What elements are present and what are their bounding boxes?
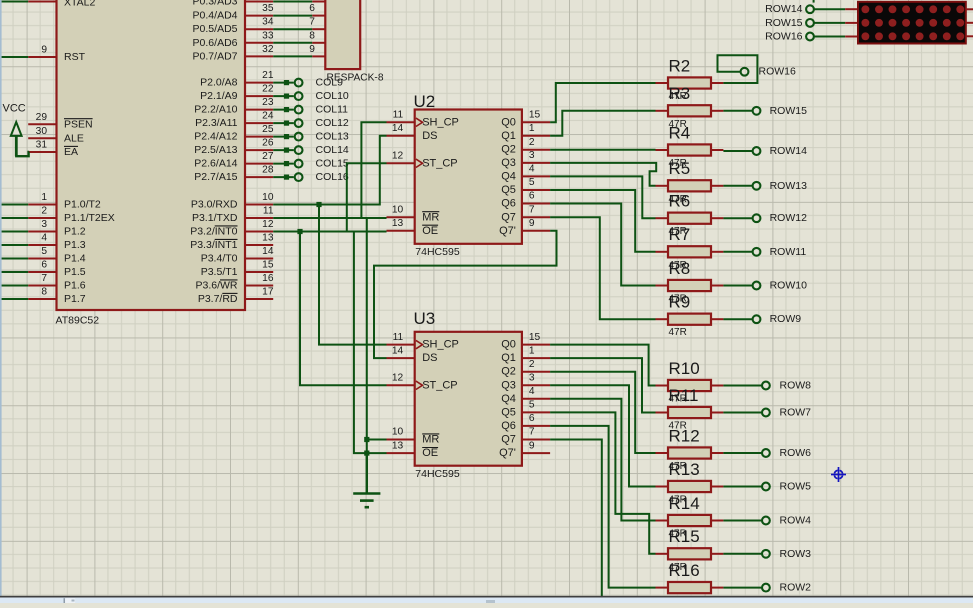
svg-text:EA: EA (64, 146, 78, 158)
svg-text:ROW9: ROW9 (770, 313, 802, 325)
svg-text:XTAL2: XTAL2 (64, 0, 95, 9)
terminal ROW15 matrix feed (765, 17, 858, 29)
terminal COL9 (273, 77, 343, 89)
svg-text:R2: R2 (669, 56, 691, 75)
svg-text:1: 1 (529, 123, 535, 134)
wire VCC to EA pin (16, 152, 29, 156)
svg-text:Q6: Q6 (501, 198, 516, 210)
terminal COL12 (273, 117, 349, 129)
wire U2.Q4 to R6 (550, 176, 655, 218)
svg-text:COL16: COL16 (316, 171, 349, 183)
svg-text:16: 16 (262, 273, 274, 284)
wire U2.Q3 to R5 with jog (550, 163, 656, 186)
RESPACK-8 pin numbers 6 7 8 9 (309, 3, 315, 55)
left window edge (0, 0, 2, 596)
svg-text:13: 13 (392, 218, 404, 229)
svg-text:31: 31 (36, 140, 48, 151)
U1 right pin stubs with pin numbers 35-32 21-28 10-17 (245, 2, 274, 300)
resistor R10 47R (656, 359, 724, 405)
shift register U2 74HC595 (414, 92, 522, 258)
wire ROW5 (723, 486, 761, 488)
wire U2.SH_CP down to P3.1 net (361, 122, 386, 218)
resistor R6 47R (656, 192, 724, 238)
svg-text:P0.3/AD3: P0.3/AD3 (193, 0, 238, 8)
bottom scrollbar (0, 596, 973, 603)
svg-text:Q0: Q0 (501, 339, 516, 351)
svg-text:P1.4: P1.4 (64, 253, 86, 265)
svg-text:ROW13: ROW13 (770, 180, 808, 192)
svg-text:Q7: Q7 (501, 434, 516, 446)
svg-text:R4: R4 (669, 123, 691, 142)
wire U2.Q2 to R4 (550, 149, 655, 151)
wire U3.Q6 to R16 (550, 426, 655, 588)
ground (353, 453, 380, 507)
svg-text:ROW15: ROW15 (765, 17, 803, 29)
svg-text:VCC: VCC (3, 103, 26, 115)
svg-text:74HC595: 74HC595 (415, 246, 460, 258)
svg-text:COL15: COL15 (316, 158, 349, 170)
svg-text:1: 1 (529, 345, 535, 356)
svg-text:74HC595: 74HC595 (415, 468, 460, 480)
wire P3.2 net down to U3.OE (354, 232, 387, 454)
svg-text:P3.6/WR: P3.6/WR (195, 280, 237, 292)
svg-text:3: 3 (41, 219, 47, 230)
wire U3.Q3 to R13 (550, 385, 655, 486)
svg-text:R5: R5 (669, 159, 691, 178)
svg-text:AT89C52: AT89C52 (56, 315, 100, 327)
resistor R12 47R (656, 426, 724, 472)
wire U3.Q4 to R14 (550, 399, 655, 521)
svg-text:ROW14: ROW14 (770, 145, 808, 157)
svg-text:9: 9 (529, 440, 535, 451)
wire U2.Q0 to R2 (550, 83, 655, 122)
svg-text:P1.5: P1.5 (64, 266, 86, 278)
wire U2.Q5 to R7 (550, 190, 655, 252)
wire U2.Q7' cascade to U3.DS (374, 231, 557, 358)
svg-text:25: 25 (262, 124, 274, 135)
terminal ROW15 (753, 105, 808, 117)
svg-text:ROW4: ROW4 (780, 515, 812, 527)
terminal ROW16 (741, 66, 796, 78)
svg-text:R9: R9 (669, 293, 691, 312)
wire U2.Q7 to R9 (550, 217, 655, 319)
terminal COL15 (273, 158, 349, 170)
svg-text:32: 32 (262, 44, 274, 55)
svg-text:COL14: COL14 (316, 144, 349, 156)
RESPACK-8 left pin stubs (312, 2, 325, 57)
resistor R14 47R (656, 494, 724, 540)
terminal ROW13 (753, 180, 808, 192)
svg-text:9: 9 (529, 218, 535, 229)
svg-text:26: 26 (262, 138, 274, 149)
wire ROW11 (723, 251, 752, 253)
terminal COL14 (273, 144, 349, 156)
svg-text:29: 29 (36, 112, 48, 123)
resistor R4 47R (656, 123, 724, 169)
wire U3.Q1 to R11 (550, 358, 655, 412)
svg-text:14: 14 (392, 123, 404, 134)
svg-text:R3: R3 (669, 84, 691, 103)
svg-text:11: 11 (393, 110, 404, 121)
svg-text:10: 10 (392, 427, 404, 438)
svg-text:P1.3: P1.3 (64, 239, 86, 251)
power VCC arrow (3, 103, 26, 157)
svg-text:P3.3/INT1: P3.3/INT1 (190, 239, 237, 251)
svg-text:11: 11 (263, 206, 274, 217)
wire ROW15 (723, 110, 752, 112)
svg-text:COL9: COL9 (316, 77, 344, 89)
wire U3.Q5 to R15 with jog (550, 412, 655, 553)
svg-text:21: 21 (262, 70, 274, 81)
terminal ROW11 (753, 246, 807, 258)
svg-text:33: 33 (262, 30, 274, 41)
svg-text:12: 12 (262, 219, 274, 230)
resistor R13 47R (656, 460, 724, 506)
svg-text:8: 8 (41, 287, 47, 298)
svg-text:P3.4/T0: P3.4/T0 (201, 253, 238, 265)
U2 pin stubs and pin numbers (387, 110, 551, 231)
svg-text:SH_CP: SH_CP (422, 339, 459, 351)
svg-text:12: 12 (392, 151, 404, 162)
svg-text:R15: R15 (669, 527, 700, 546)
svg-text:10: 10 (262, 192, 274, 203)
svg-text:R8: R8 (669, 259, 691, 278)
svg-text:ROW12: ROW12 (770, 212, 808, 224)
svg-text:2: 2 (529, 137, 535, 148)
svg-text:Q1: Q1 (501, 130, 516, 142)
svg-text:Q2: Q2 (501, 366, 516, 378)
svg-text:6: 6 (309, 3, 315, 14)
resistor R11 47R (656, 386, 724, 432)
svg-text:Q4: Q4 (501, 393, 516, 405)
terminal ROW5 (762, 481, 811, 493)
svg-text:ROW8: ROW8 (780, 380, 812, 392)
svg-text:15: 15 (262, 260, 274, 271)
wire ROW4 (723, 520, 761, 522)
svg-text:P0.4/AD4: P0.4/AD4 (193, 10, 238, 22)
svg-text:P2.6/A14: P2.6/A14 (194, 158, 237, 170)
wires P0.3-P0.7 to RESPACK-8 (273, 2, 312, 57)
svg-text:P3.5/T1: P3.5/T1 (201, 266, 238, 278)
wire R2 to ROW16 terminal detour (718, 55, 758, 83)
svg-text:P2.7/A15: P2.7/A15 (194, 171, 237, 183)
svg-text:4: 4 (41, 233, 47, 244)
wire U3.Q2 to R12 (550, 372, 655, 453)
svg-text:ROW3: ROW3 (780, 548, 812, 560)
svg-text:ST_CP: ST_CP (422, 157, 457, 169)
svg-text:8: 8 (309, 30, 315, 41)
svg-text:ROW7: ROW7 (780, 407, 812, 419)
resistor R2 47R (656, 56, 724, 102)
svg-text:22: 22 (262, 84, 274, 95)
svg-text:COL13: COL13 (316, 131, 349, 143)
svg-text:Q6: Q6 (501, 420, 516, 432)
svg-text:RST: RST (64, 51, 86, 63)
wire P3.2 junction down to U3.ST_CP (300, 232, 387, 386)
wires from left edge to U1 pins XTAL2 RST P1.0-P1.7 (0, 2, 28, 300)
svg-text:ROW5: ROW5 (780, 481, 812, 493)
svg-text:P0.6/AD6: P0.6/AD6 (193, 37, 238, 49)
svg-text:R12: R12 (669, 426, 700, 445)
svg-text:DS: DS (422, 130, 437, 142)
svg-text:9: 9 (41, 45, 47, 56)
svg-text:24: 24 (262, 111, 274, 122)
wire P3.0 to U2.DS and U3.SH_CP with junction (273, 136, 386, 345)
dot matrix display LED16x16 (858, 2, 973, 44)
svg-text:ROW2: ROW2 (780, 582, 812, 594)
svg-text:P2.1/A9: P2.1/A9 (200, 90, 238, 102)
svg-text:P1.2: P1.2 (64, 226, 86, 238)
svg-text:Q2: Q2 (501, 144, 516, 156)
wire ROW3 (723, 553, 761, 555)
U1 left pin stubs with pin numbers 9 29 30 31 1-8 (28, 2, 56, 300)
svg-text:P3.2/INT0: P3.2/INT0 (190, 226, 237, 238)
svg-text:R16: R16 (669, 561, 700, 580)
svg-text:P0.7/AD7: P0.7/AD7 (193, 50, 238, 62)
svg-text:7: 7 (41, 273, 47, 284)
svg-text:MR: MR (422, 434, 439, 446)
svg-text:14: 14 (392, 345, 404, 356)
svg-text:2: 2 (529, 359, 535, 370)
svg-text:COL11: COL11 (316, 104, 349, 116)
resistor pack RP1 RESPACK-8 (325, 0, 384, 83)
svg-text:ST_CP: ST_CP (422, 379, 457, 391)
terminal ROW6 (762, 447, 811, 459)
svg-text:Q7': Q7' (499, 225, 516, 237)
svg-text:P1.7: P1.7 (64, 293, 86, 305)
svg-text:5: 5 (529, 400, 535, 411)
resistor R8 47R (656, 259, 724, 305)
wire ROW9 (723, 318, 752, 320)
wire ROW8 (723, 385, 761, 387)
svg-text:5: 5 (529, 177, 535, 188)
svg-text:13: 13 (392, 440, 404, 451)
cursor crosshair (831, 467, 846, 482)
svg-text:SH_CP: SH_CP (422, 116, 459, 128)
svg-text:ROW11: ROW11 (770, 246, 807, 258)
terminal ROW8 (762, 380, 811, 392)
svg-text:27: 27 (262, 151, 274, 162)
svg-text:Q7': Q7' (499, 447, 516, 459)
terminal ROW3 (762, 548, 811, 560)
svg-text:30: 30 (36, 126, 48, 137)
svg-text:5: 5 (41, 246, 47, 257)
resistor R15 47R (656, 527, 724, 573)
svg-text:P1.6: P1.6 (64, 280, 86, 292)
svg-text:R6: R6 (669, 192, 691, 211)
wire ROW12 (723, 217, 752, 219)
svg-text:47R: 47R (669, 327, 687, 338)
svg-text:Q0: Q0 (501, 116, 516, 128)
svg-text:ROW16: ROW16 (765, 31, 803, 43)
svg-text:ALE: ALE (64, 132, 84, 144)
svg-text:ROW14: ROW14 (765, 3, 803, 15)
svg-text:P2.0/A8: P2.0/A8 (200, 77, 238, 89)
wire U2.ST_CP down to P3.2 net (347, 163, 387, 231)
wire P3.1 to U2.MR (273, 217, 386, 219)
terminal ROW10 (753, 280, 808, 292)
svg-text:P2.4/A12: P2.4/A12 (194, 131, 237, 143)
svg-text:DS: DS (422, 352, 437, 364)
svg-text:P2.5/A13: P2.5/A13 (194, 144, 237, 156)
svg-text:35: 35 (262, 3, 274, 14)
microcontroller U1 AT89C52 (56, 0, 246, 327)
resistor R7 47R (656, 225, 724, 271)
svg-text:23: 23 (262, 97, 274, 108)
svg-text:P1.0/T2: P1.0/T2 (64, 199, 101, 211)
svg-text:15: 15 (529, 332, 541, 343)
terminal ROW14 (753, 145, 808, 157)
svg-text:MR: MR (422, 211, 439, 223)
svg-text:R11: R11 (669, 386, 699, 405)
wire ROW7 (723, 412, 761, 414)
svg-text:Q3: Q3 (501, 157, 516, 169)
resistor R3 47R (656, 84, 724, 130)
svg-text:1: 1 (41, 192, 47, 203)
svg-text:11: 11 (393, 332, 404, 343)
resistor R16 47R (656, 561, 724, 593)
svg-text:U3: U3 (414, 309, 436, 328)
svg-text:Q4: Q4 (501, 170, 516, 182)
wire ROW14 (723, 150, 752, 152)
shift register U3 74HC595 (414, 309, 522, 480)
svg-text:P3.0/RXD: P3.0/RXD (191, 199, 238, 211)
wire U3.Q0 to R10 (550, 345, 655, 386)
svg-text:10: 10 (392, 205, 404, 216)
svg-text:Q5: Q5 (501, 406, 516, 418)
svg-text:OE: OE (422, 447, 438, 459)
svg-text:P0.5/AD5: P0.5/AD5 (193, 23, 238, 35)
svg-text:3: 3 (529, 373, 535, 384)
terminal COL10 (273, 90, 349, 102)
terminal ROW4 (762, 515, 811, 527)
svg-text:2: 2 (41, 206, 47, 217)
wire ROW6 (723, 452, 761, 454)
svg-text:28: 28 (262, 165, 274, 176)
svg-text:ROW6: ROW6 (780, 447, 812, 459)
resistor R9 47R (656, 293, 724, 339)
svg-text:6: 6 (41, 260, 47, 271)
svg-text:3: 3 (529, 150, 535, 161)
wire P3.1 net down to U3.MR and ground (364, 218, 386, 494)
terminal ROW7 (762, 407, 811, 419)
svg-text:COL12: COL12 (316, 117, 349, 129)
svg-text:P2.2/A10: P2.2/A10 (194, 104, 237, 116)
terminal ROW2 (762, 582, 811, 594)
svg-text:Q1: Q1 (501, 352, 516, 364)
terminal COL11 (273, 104, 348, 116)
wire P3.2 to U2.OE (273, 229, 386, 234)
wire U2.Q1 to R3 (550, 111, 655, 136)
svg-text:Q5: Q5 (501, 184, 516, 196)
terminal COL13 (273, 131, 349, 143)
svg-text:7: 7 (309, 17, 315, 28)
terminal COL16 (273, 171, 349, 183)
svg-text:4: 4 (529, 164, 535, 175)
svg-text:14: 14 (262, 246, 274, 257)
svg-text:4: 4 (529, 386, 535, 397)
svg-text:7: 7 (529, 205, 535, 216)
svg-text:OE: OE (422, 225, 438, 237)
svg-text:9: 9 (309, 44, 315, 55)
wire U2.Q6 to R8 (550, 204, 655, 286)
U3 pin stubs and pin numbers (387, 332, 551, 453)
svg-text:P2.3/A11: P2.3/A11 (195, 117, 238, 129)
wire ROW10 (723, 285, 752, 287)
svg-text:P3.1/TXD: P3.1/TXD (192, 212, 238, 224)
terminal ROW16 matrix feed (765, 31, 858, 43)
svg-text:R13: R13 (669, 460, 700, 479)
wire U3.Q7 down off-screen (550, 440, 602, 597)
svg-text:7: 7 (529, 427, 535, 438)
svg-text:15: 15 (529, 110, 541, 121)
wire ROW13 (723, 185, 752, 187)
svg-text:U2: U2 (414, 92, 436, 111)
wire stub top edge (813, 0, 815, 3)
terminal ROW9 (753, 313, 802, 325)
svg-text:R10: R10 (669, 359, 700, 378)
svg-text:34: 34 (262, 17, 274, 28)
svg-text:17: 17 (262, 287, 274, 298)
svg-text:ROW10: ROW10 (770, 280, 808, 292)
terminal ROW12 (753, 212, 808, 224)
svg-text:P3.7/RD: P3.7/RD (198, 293, 238, 305)
svg-text:ROW15: ROW15 (770, 105, 808, 117)
svg-text:R14: R14 (669, 494, 700, 513)
svg-text:13: 13 (262, 233, 274, 244)
svg-text:12: 12 (392, 373, 404, 384)
svg-text:PSEN: PSEN (64, 118, 93, 130)
resistor R5 47R (656, 159, 724, 205)
svg-text:ROW16: ROW16 (759, 66, 797, 78)
svg-text:6: 6 (529, 413, 535, 424)
svg-text:R7: R7 (669, 225, 691, 244)
wire ROW2 (723, 587, 761, 589)
svg-text:Q7: Q7 (501, 211, 516, 223)
terminal ROW14 matrix feed (765, 3, 858, 15)
svg-text:COL10: COL10 (316, 90, 349, 102)
svg-text:Q3: Q3 (501, 379, 516, 391)
svg-text:6: 6 (529, 191, 535, 202)
svg-text:P1.1/T2EX: P1.1/T2EX (64, 212, 115, 224)
